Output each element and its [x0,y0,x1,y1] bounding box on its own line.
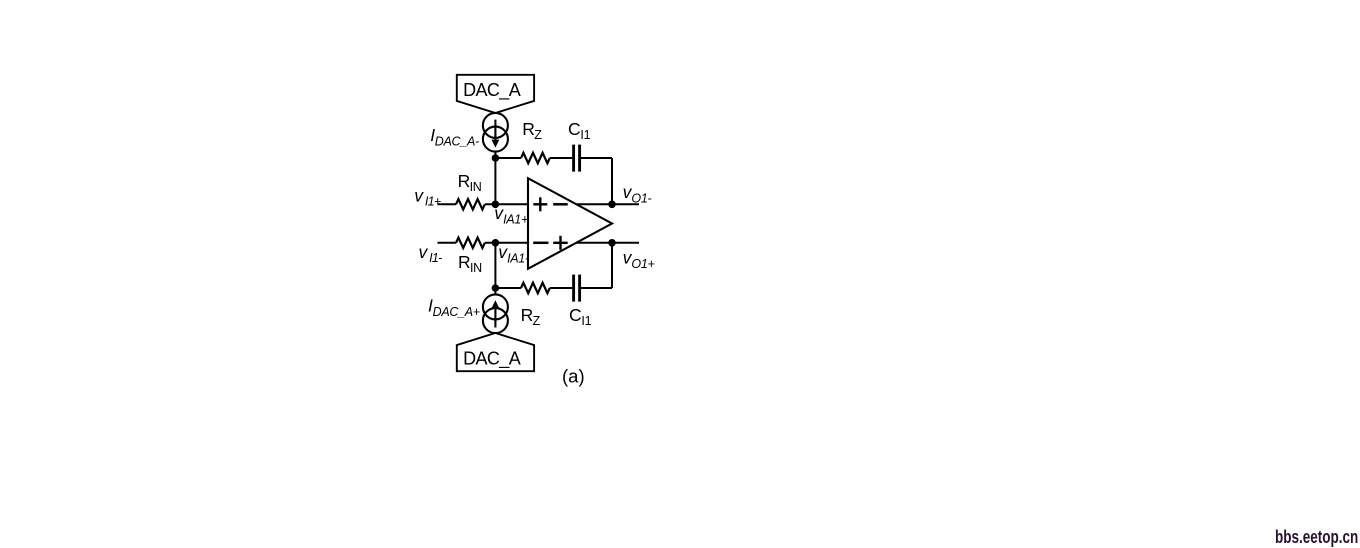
wire: current source to node vIA1+ branch [494,151,496,159]
svg-text:v: v [419,242,429,262]
svg-text:I1: I1 [581,314,591,328]
op-amp + output mark (bottom) [553,236,568,250]
label v_O1- [623,182,652,205]
op-amp + input mark (top) [533,197,547,211]
wire: R_IN to op-amp - input [485,242,528,244]
DAC block DAC_A (bottom) [457,333,534,371]
label v_IA1+ [494,203,528,226]
wire: v_O1+ node to bottom feedback rise [611,243,613,288]
svg-text:v: v [414,185,424,205]
svg-text:O1+: O1+ [631,257,654,271]
resistor R_IN (bottom) [456,238,485,248]
watermark bbs.eetop.cn [1275,527,1358,548]
svg-text:R: R [522,119,535,139]
svg-text:C: C [568,119,581,139]
label C_I1 (bottom) [569,305,592,328]
resistor R_Z (bottom) [521,283,550,293]
label R_Z (bottom) [521,305,541,328]
current source I_DAC_A+ (bottom) [483,294,508,333]
resistor R_Z (top) [521,153,550,163]
label v_O1+ [623,248,655,271]
DAC block DAC_A (top) [457,75,534,113]
label v_IA1- [498,242,529,265]
wire: op-amp to v_O1+ output [576,242,639,244]
op-amp - output mark (top) [553,203,568,206]
svg-text:I1+: I1+ [425,194,441,208]
wire: feedback drop to output node vO1- [611,158,613,204]
svg-text:DAC_A+: DAC_A+ [433,305,480,319]
wire: R_IN to op-amp + input [485,203,528,205]
wire: R_Z to C_I1 (top) [550,157,572,159]
label v_I1- [419,242,443,265]
label I_DAC_A- [430,125,479,149]
svg-text:R: R [458,171,471,191]
wire: node to R_Z (bottom) [495,287,521,289]
svg-text:I1: I1 [580,128,590,142]
wire: node to R_Z (top) [495,157,521,159]
wire: C_I1 to output column (bottom) [581,287,612,289]
node junction dot (top feedback node) [492,154,500,162]
wire: R_Z to C_I1 (bottom) [550,287,572,289]
node junction dot (bottom feedback node) [492,284,500,292]
svg-text:C: C [569,305,582,325]
wire: C_I1 to output column (top) [581,157,612,159]
svg-text:(a): (a) [562,366,585,387]
current source I_DAC_A- (top) [483,113,508,152]
wire: bottom node to current source [494,288,496,296]
node v_O1- junction dot [608,201,616,209]
svg-text:IA1+: IA1+ [503,212,528,226]
label v_I1+ [414,185,441,208]
capacitor C_I1 (top) [574,145,580,172]
resistor R_IN (top) [456,199,485,209]
wire: v_I1- input lead [438,242,457,244]
wire: v_I1+ input lead [438,203,457,205]
svg-text:R: R [521,305,534,325]
svg-text:DAC_A-: DAC_A- [435,134,479,148]
capacitor C_I1 (bottom) [574,275,580,302]
label C_I1 (top) [568,119,591,142]
wire: v_IA1- node to bottom feedback node [494,243,496,288]
svg-text:IN: IN [470,180,482,194]
label R_Z (top) [522,119,542,142]
op-amp - input mark (bottom) [533,242,548,245]
svg-text:R: R [458,252,471,272]
node v_O1+ junction dot [608,239,616,247]
wire: op-amp to v_O1- output [576,203,639,205]
node v_IA1+ junction dot [492,201,500,209]
label R_IN (top) [458,171,482,194]
svg-text:DAC_A: DAC_A [463,80,521,101]
label I_DAC_A+ [428,296,480,320]
svg-text:IA1-: IA1- [507,251,529,265]
svg-text:Z: Z [534,128,542,142]
label R_IN (bottom) [458,252,482,275]
op-amp U1 (fully differential) [528,178,612,269]
svg-text:Z: Z [533,314,541,328]
svg-text:IN: IN [470,261,482,275]
node v_IA1- junction dot [492,239,500,247]
svg-text:I1-: I1- [429,251,442,265]
svg-text:O1-: O1- [631,192,651,206]
wire: v_IA1+ node to feedback node [494,158,496,204]
svg-text:DAC_A: DAC_A [463,348,521,369]
